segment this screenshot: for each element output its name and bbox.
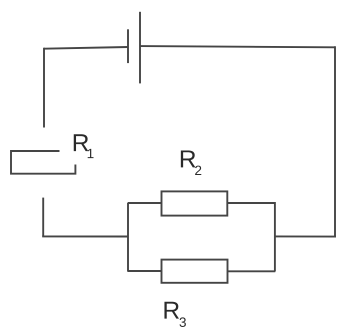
- battery B1 long plate: [139, 12, 141, 84]
- label R1: [74, 134, 94, 158]
- label R2: [181, 150, 201, 175]
- wire top-left horizontal: [44, 47, 128, 49]
- label R3: [164, 302, 185, 327]
- node parallel left vertical: [127, 203, 129, 272]
- resistor R1 open box: [11, 151, 75, 174]
- node parallel right vertical: [274, 202, 276, 271]
- wire right vertical: [334, 46, 336, 236]
- resistor R3: [162, 260, 228, 283]
- wire top-right horizontal: [140, 46, 335, 47]
- wire R2 right lead: [227, 202, 275, 204]
- wire left vertical upper: [43, 48, 45, 128]
- resistor R2: [162, 191, 228, 215]
- wire R3 left lead: [128, 270, 162, 272]
- wire bottom-left horizontal: [42, 235, 128, 237]
- wire R3 right lead: [228, 270, 276, 272]
- wire left vertical lower: [42, 198, 44, 237]
- battery B1 short plate: [127, 29, 129, 63]
- wire bottom-right horizontal: [275, 235, 336, 237]
- wire R2 left lead: [128, 202, 162, 204]
